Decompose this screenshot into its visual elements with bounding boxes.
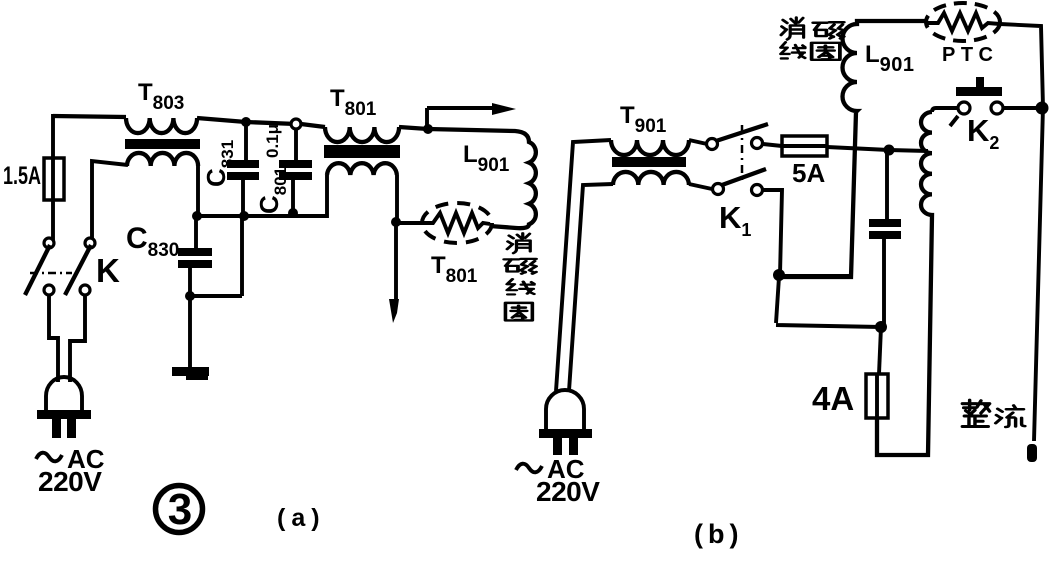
svg-text:K: K bbox=[96, 252, 120, 289]
svg-text:3: 3 bbox=[168, 485, 192, 534]
svg-text:(a): (a) bbox=[277, 504, 326, 532]
svg-text:5A: 5A bbox=[792, 158, 825, 188]
svg-text:1.5A: 1.5A bbox=[3, 161, 41, 190]
svg-text:(b): (b) bbox=[694, 519, 743, 549]
svg-text:PTC: PTC bbox=[942, 44, 999, 66]
svg-text:4A: 4A bbox=[812, 380, 854, 417]
svg-text:0.1μ: 0.1μ bbox=[263, 124, 282, 158]
svg-text:220V: 220V bbox=[38, 466, 102, 497]
svg-text:220V: 220V bbox=[536, 476, 600, 507]
